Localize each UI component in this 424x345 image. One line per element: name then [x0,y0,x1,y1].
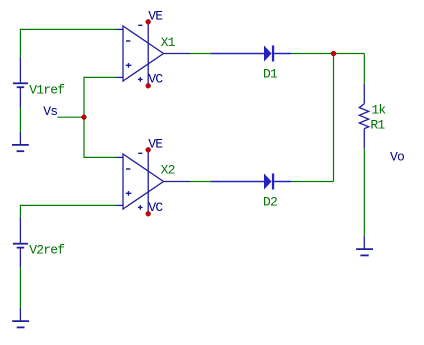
wire D1 to output junction to R1 [291,53,364,55]
wire output junction down to D2 [333,54,335,182]
svg-text:VE: VE [148,136,163,151]
op-amp X2 power pin marks [138,153,143,209]
diode D1 leads [211,53,291,55]
svg-text:D1: D1 [263,67,278,82]
svg-text:X2: X2 [161,163,175,178]
node output junction dot [331,51,336,56]
op-amp X2 input polarity marks [126,169,132,196]
wire V2ref bottom to ground [19,268,21,309]
diode D2 [264,174,274,190]
resistor R1 [359,84,368,149]
svg-text:V1ref: V1ref [29,82,64,97]
wire X1 output to D1 [190,53,211,55]
svg-text:VE: VE [148,8,163,23]
wire Vs stub [58,116,85,118]
ground under V2ref [12,308,29,327]
svg-text:R1: R1 [370,117,385,132]
op-amp X1 input polarity marks [126,41,132,68]
pin VE dot X1 [146,19,151,24]
wire V2ref to X2 non-inverting input [20,205,116,217]
svg-text:VC: VC [148,72,163,87]
svg-text:D2: D2 [263,195,277,210]
battery V2ref [13,218,28,268]
wire V1ref bottom to ground [19,108,21,133]
ground under V1ref [12,132,29,151]
svg-text:VC: VC [148,200,163,215]
svg-text:1k: 1k [371,103,386,118]
wire R1 bottom to ground [363,149,365,236]
wire X2 output to D2 [190,181,211,183]
pin VC dot X2 [146,211,151,216]
wire junction to R1 top [363,54,365,84]
battery V1ref [13,58,28,108]
wire V1ref top to X1 inverting input [20,29,116,57]
svg-text:V2ref: V2ref [29,243,64,258]
svg-text:X1: X1 [161,35,176,50]
op-amp X1 power pin marks [138,25,143,81]
wire Vs junction up to X1 non-inverting input [84,77,117,117]
ground under R1 [356,236,373,255]
node Vs junction dot [82,115,87,120]
pin VC dot X1 [146,83,151,88]
op-amp X1 [117,22,191,86]
svg-text:Vs: Vs [43,104,57,119]
op-amp X2 [117,150,191,214]
diode D2 leads [211,181,291,183]
diode D1 [264,46,274,62]
pin VE dot X2 [146,147,151,152]
wire Vs junction down to X2 inverting input [84,117,117,157]
svg-text:Vo: Vo [390,150,404,165]
wire D2 to corner [291,181,334,183]
